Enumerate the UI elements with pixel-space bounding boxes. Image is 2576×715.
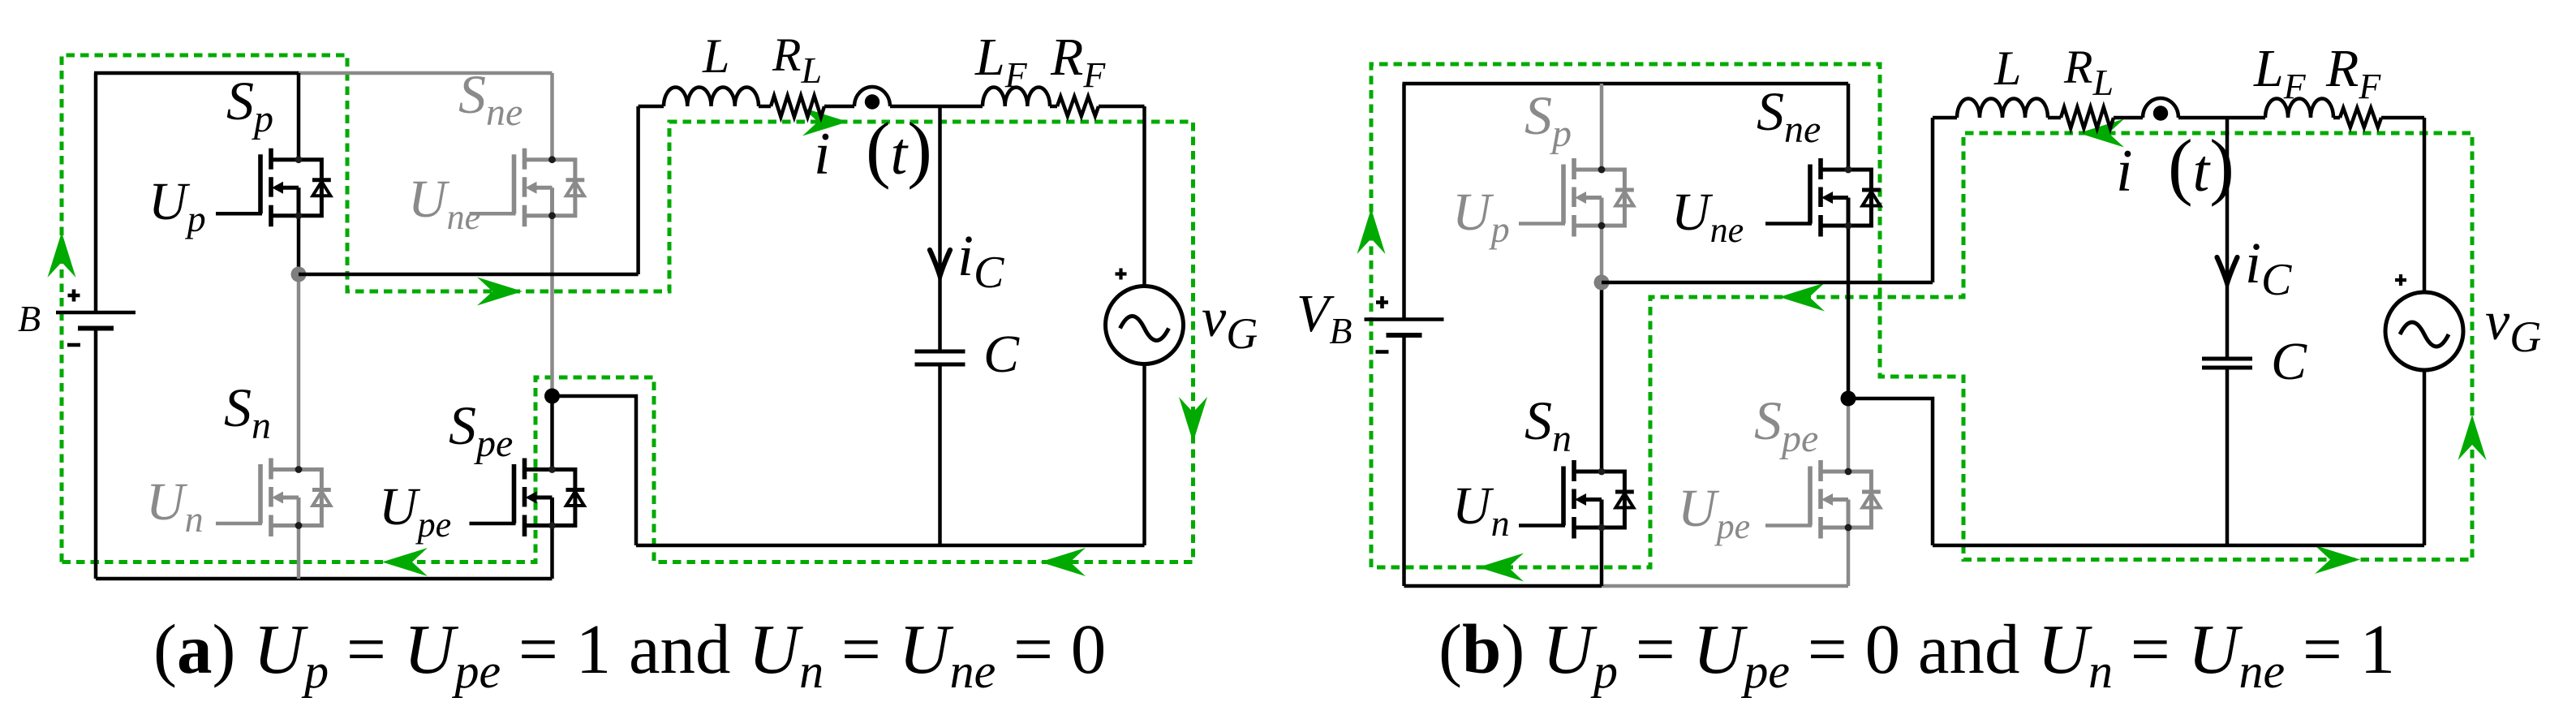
wire Sn source to bottom rail <box>297 526 301 579</box>
wire Sne drain <box>550 73 554 160</box>
current probe bump + dot i(t) node <box>854 87 890 106</box>
vG plus sign <box>1116 269 1127 280</box>
svg-text:B: B <box>18 298 41 339</box>
green arrow down <box>1179 397 1207 442</box>
battery plus sign <box>1376 296 1388 308</box>
current probe bump + dot i(t) node <box>2143 98 2178 118</box>
battery minus sign <box>1376 350 1389 354</box>
wire Sne drain <box>1847 84 1851 170</box>
wire battery bottom <box>94 329 98 579</box>
wire RF to vG corner <box>1099 105 1145 109</box>
top rail: Sp to Sne drain (inactive) <box>299 71 553 75</box>
capacitor C <box>2202 357 2252 361</box>
gate lead of Sn <box>216 522 262 526</box>
bottom rail: battery- to Spe source <box>96 577 553 581</box>
wire capacitor junction to LF <box>2227 116 2265 120</box>
green arrow up <box>1357 209 1386 254</box>
green arrow up <box>2458 415 2487 460</box>
capacitor C <box>915 350 965 354</box>
svg-text:L: L <box>1993 41 2021 95</box>
gate lead of Spe <box>1765 523 1812 528</box>
wire node A to filter riser <box>299 273 639 277</box>
wire node B to step corner <box>553 396 637 545</box>
green current-path dashed loop, circuit (b) <box>1371 64 2472 567</box>
wire node B to Spe drain <box>550 396 554 470</box>
wire L to RL <box>2048 116 2061 120</box>
wire rail down to capacitor C <box>938 106 942 351</box>
wire RL to current probe node <box>824 105 854 109</box>
gate lead of Sne <box>470 212 516 216</box>
bottom rail: Sn to Spe source (inactive) <box>1602 584 1848 588</box>
wire node A to filter riser <box>1602 281 1933 285</box>
wire vG bottom <box>1142 364 1146 546</box>
top rail: battery+ to Sne drain (active) <box>1403 82 1849 86</box>
wire vG bottom <box>2423 370 2427 545</box>
resistor RF <box>2340 108 2381 127</box>
bottom rail of filter section <box>1933 544 2424 548</box>
svg-text:L: L <box>702 29 729 83</box>
wire rail down to capacitor C <box>2226 118 2230 359</box>
node A junction dot <box>291 267 307 282</box>
inductor LF <box>2265 99 2333 118</box>
wire vG top <box>2423 118 2427 292</box>
gate lead of Sp <box>216 212 262 216</box>
wire node A to Sn drain <box>297 274 301 470</box>
wire battery top to top rail <box>94 73 98 312</box>
gate lead of Sn <box>1519 523 1565 528</box>
svg-text:i: i <box>2116 138 2133 205</box>
wire Sne source to node B <box>550 216 554 396</box>
wire LF to RF <box>1050 105 1057 109</box>
iC current arrow <box>930 250 950 276</box>
resistor RL <box>771 96 824 117</box>
battery B <box>56 311 135 315</box>
transistor Sp <box>260 149 331 227</box>
wire Spe source to bottom rail <box>550 526 554 579</box>
bottom rail of filter section <box>636 544 1145 548</box>
bottom rail: battery- to Sn source (active) <box>1404 584 1602 588</box>
svg-text:C: C <box>983 325 1020 384</box>
wire Sp source to node A <box>297 216 301 274</box>
wire node A to Sn drain <box>1600 282 1604 472</box>
green current-path dashed loop, circuit (a) <box>62 55 1193 562</box>
top rail: battery+ to Sp drain (active) <box>94 71 299 75</box>
node B junction dot <box>1841 391 1856 407</box>
wire riser to inductor L <box>639 105 664 109</box>
battery VB <box>1365 317 1444 321</box>
green arrow left <box>382 548 428 576</box>
inductor L <box>1957 99 2048 118</box>
wire Sn source to bottom rail <box>1600 528 1604 586</box>
transistor Sne <box>514 149 585 227</box>
resistor RL <box>2061 107 2114 128</box>
green arrow right <box>477 278 523 306</box>
wire LF to RF <box>2333 116 2340 120</box>
riser wire up to L rail <box>1931 118 1935 282</box>
wire node B to Spe drain <box>1847 398 1851 472</box>
vG plus sign <box>2395 274 2406 286</box>
battery plus sign <box>68 290 80 302</box>
iC current arrow <box>2217 257 2238 283</box>
wire Sp source to node A <box>1600 226 1604 282</box>
wire capacitor to bottom rail <box>938 364 942 545</box>
wire L to RL <box>759 105 771 109</box>
wire node to capacitor junction <box>2178 116 2227 120</box>
green arrow right <box>2315 545 2360 574</box>
AC source vG <box>2385 292 2463 370</box>
wire riser to inductor L <box>1933 116 1957 120</box>
svg-text:C: C <box>2271 332 2307 391</box>
wire RL to current probe node <box>2114 116 2143 120</box>
green arrow left <box>1779 283 1825 312</box>
transistor Sn <box>1563 460 1634 539</box>
wire Sne source to node B <box>1847 226 1851 398</box>
wire Sp drain <box>297 73 301 160</box>
green arrow left <box>2079 119 2124 148</box>
green arrow left <box>1040 548 1086 576</box>
gate lead of Sp <box>1519 222 1565 226</box>
inductor LF <box>983 87 1050 106</box>
resistor RF <box>1057 97 1099 116</box>
wire node B to step corner <box>1848 398 1933 545</box>
wire RF to vG corner <box>2381 116 2424 120</box>
green arrow right <box>802 108 848 136</box>
AC source vG <box>1106 286 1184 364</box>
svg-text:i: i <box>814 121 831 187</box>
battery minus sign <box>67 343 80 347</box>
wire node to capacitor junction <box>890 105 940 109</box>
inductor L <box>664 87 759 106</box>
node B junction dot <box>544 389 560 404</box>
wire capacitor junction to LF <box>940 105 983 109</box>
wire Spe source to bottom rail <box>1847 528 1851 586</box>
node A junction dot <box>1594 275 1610 291</box>
transistor Spe <box>1810 460 1881 539</box>
wire Sp drain <box>1600 84 1604 170</box>
wire capacitor to bottom rail <box>2226 368 2230 545</box>
transistor Spe <box>514 459 585 537</box>
green arrow up <box>48 232 76 278</box>
wire battery bottom <box>1402 335 1406 586</box>
transistor Sn <box>260 459 331 537</box>
gate lead of Spe <box>470 522 516 526</box>
wire vG top <box>1142 106 1146 286</box>
transistor Sne <box>1810 158 1881 237</box>
gate lead of Sne <box>1765 222 1812 226</box>
transistor Sp <box>1563 158 1634 237</box>
riser wire up to L rail <box>636 106 640 274</box>
wire battery top to top rail <box>1402 84 1406 320</box>
green arrow left <box>1478 553 1524 582</box>
